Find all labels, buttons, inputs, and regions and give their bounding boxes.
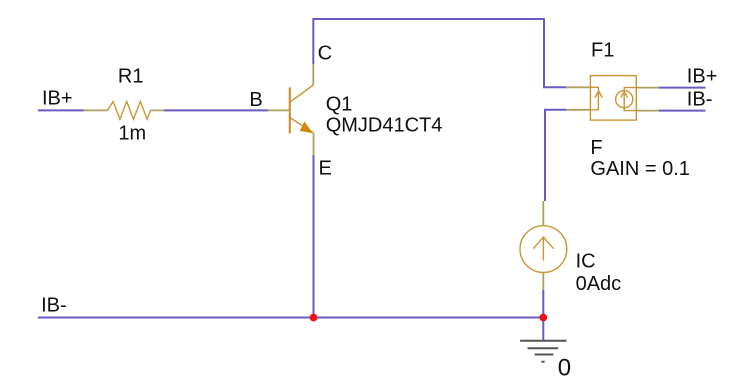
svg-text:IC: IC xyxy=(576,250,596,272)
svg-text:R1: R1 xyxy=(118,66,144,88)
svg-text:IB+: IB+ xyxy=(42,88,73,110)
svg-text:E: E xyxy=(319,158,332,180)
svg-text:0: 0 xyxy=(558,355,571,382)
svg-text:GAIN = 0.1: GAIN = 0.1 xyxy=(590,158,690,180)
svg-text:0Adc: 0Adc xyxy=(576,273,622,295)
svg-text:QMJD41CT4: QMJD41CT4 xyxy=(326,114,443,136)
svg-text:IB+: IB+ xyxy=(687,65,718,87)
svg-text:C: C xyxy=(318,43,332,65)
svg-text:IB-: IB- xyxy=(41,295,67,317)
svg-text:1m: 1m xyxy=(118,123,146,145)
svg-text:F1: F1 xyxy=(591,40,614,62)
svg-text:F: F xyxy=(590,137,602,159)
svg-text:B: B xyxy=(249,89,262,111)
svg-text:IB-: IB- xyxy=(687,89,713,111)
svg-text:Q1: Q1 xyxy=(326,94,353,116)
